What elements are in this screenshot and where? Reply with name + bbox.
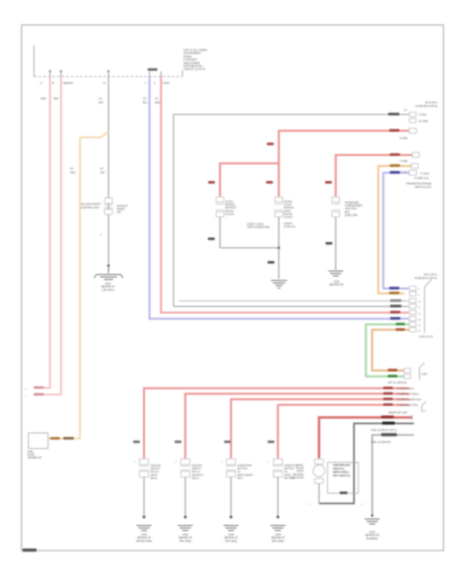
svg-text:KEY): KEY)	[238, 478, 244, 480]
connector stack pin labels	[418, 289, 421, 332]
gray right label	[381, 433, 397, 436]
gray loop top wire	[174, 115, 410, 307]
red thick pin tick	[411, 415, 413, 420]
svg-text:FUSE BOX (I/P-E): FUSE BOX (I/P-E)	[415, 104, 437, 108]
junction dot gray wire	[107, 264, 110, 267]
M1 ground wire label	[268, 261, 275, 264]
cascade bracket	[422, 402, 426, 413]
wire green loop	[366, 324, 409, 376]
svg-text:DRV SIDE): DRV SIDE)	[272, 540, 284, 543]
svg-text:KEY: KEY	[117, 212, 122, 214]
svg-text:DIGITAL: DIGITAL	[225, 210, 234, 213]
svg-text:START: START	[163, 82, 171, 85]
svg-text:KEY ILL: KEY ILL	[192, 472, 201, 474]
cascade 1 labels	[383, 387, 393, 390]
svg-text:12 (WITH ESCL): 12 (WITH ESCL)	[397, 389, 414, 391]
lower pair bracket	[420, 363, 425, 380]
svg-text:ESCL): ESCL)	[151, 478, 158, 480]
cascade 4 labels	[383, 403, 393, 406]
bus pin number labels	[40, 82, 170, 85]
svg-text:JOINT CONNECTOR): JOINT CONNECTOR)	[247, 227, 270, 229]
wire red cascade 2	[185, 394, 409, 459]
motor M5 top connector	[315, 459, 324, 464]
wire red cascade 1	[144, 388, 409, 459]
svg-text:FUSE BOX (I/P-G): FUSE BOX (I/P-G)	[415, 276, 438, 280]
fuse F4 pin	[149, 72, 151, 77]
branch 3 text	[238, 465, 254, 480]
svg-text:C204-2 (C,D): C204-2 (C,D)	[419, 337, 433, 339]
fuse box dashed bus	[34, 76, 183, 78]
wire black	[319, 423, 414, 503]
component M1 red wire	[279, 131, 409, 197]
svg-text:CIRCUIT (2 OF 6): CIRCUIT (2 OF 6)	[184, 67, 206, 71]
svg-text:I/P-G I/P-H: I/P-G I/P-H	[424, 273, 437, 277]
svg-text:2: 2	[221, 462, 223, 464]
branch 1 ground wire	[143, 477, 145, 516]
svg-text:GRY: GRY	[100, 171, 106, 174]
motor M5 circle	[313, 465, 325, 477]
wire red thick	[319, 417, 412, 458]
pin P4	[412, 164, 419, 169]
wire red cascade 4	[278, 405, 409, 459]
svg-text:IGNITION: IGNITION	[192, 466, 203, 468]
ground G6	[365, 519, 380, 524]
svg-text:RELEASE: RELEASE	[293, 473, 304, 476]
branch 1 connector	[139, 459, 149, 477]
wire blue 2 loop	[383, 173, 409, 289]
svg-text:ILL: ILL	[284, 472, 288, 474]
component M1 text	[284, 201, 296, 229]
svg-text:RED: RED	[54, 98, 59, 101]
svg-text:FUEL LID RELAY (I/P-G): FUEL LID RELAY (I/P-G)	[371, 429, 397, 432]
cascade 2 labels	[383, 392, 393, 395]
branch 2 ground wire	[184, 477, 186, 516]
lower pair pins	[404, 368, 411, 378]
svg-text:CLOCK): CLOCK)	[225, 214, 234, 216]
connector C9 right text	[117, 206, 128, 214]
svg-text:13 (WITHOUT ESCL): 13 (WITHOUT ESCL)	[397, 394, 419, 396]
page number label	[23, 549, 37, 552]
svg-text:RED: RED	[155, 101, 160, 104]
connector stack bracket	[425, 280, 432, 334]
svg-text:(BEHIND I/P): (BEHIND I/P)	[329, 284, 343, 287]
svg-text:MODULE: MODULE	[225, 205, 235, 207]
svg-text:SMART: SMART	[117, 208, 126, 211]
svg-text:COMPARTMENT: COMPARTMENT	[345, 205, 363, 208]
svg-text:6 C2(A): 6 C2(A)	[419, 114, 427, 117]
pink wires pin numbers	[25, 389, 27, 398]
svg-text:20: 20	[418, 331, 421, 333]
svg-text:CONTROL UNIT: CONTROL UNIT	[81, 206, 100, 209]
M2 red wire labels	[390, 153, 401, 156]
wire red 1	[161, 77, 409, 313]
svg-text:2: 2	[25, 396, 27, 398]
svg-text:(WITHOUT: (WITHOUT	[225, 208, 237, 210]
cascade 3 labels	[383, 398, 393, 401]
fuse box riser to label	[182, 71, 184, 77]
pin P1 top gray	[410, 112, 417, 122]
svg-text:GRY: GRY	[99, 101, 105, 104]
svg-text:BOX: BOX	[345, 212, 350, 214]
branch 1 dot	[143, 516, 146, 519]
svg-text:FUEL: FUEL	[298, 465, 305, 467]
branch 4 connector	[273, 459, 283, 477]
ground G1	[94, 266, 123, 280]
wire orange 2 loop	[378, 166, 411, 293]
svg-text:(WITH ESCL): (WITH ESCL)	[333, 470, 349, 474]
connector C9 in gray wire	[104, 198, 113, 215]
svg-text:KEY ILL: KEY ILL	[151, 472, 160, 474]
branch 1 text	[151, 466, 162, 480]
svg-text:2: 2	[268, 462, 270, 464]
svg-text:CLOCK): CLOCK)	[284, 217, 293, 219]
svg-text:7 C2(B): 7 C2(B)	[400, 161, 408, 163]
svg-text:CTR TRAY): CTR TRAY)	[102, 289, 115, 292]
svg-text:16 C2(B): 16 C2(B)	[419, 121, 428, 123]
wire gray right	[372, 435, 414, 515]
fuse F1 pin	[49, 71, 51, 77]
branch 3 connector	[226, 459, 236, 477]
branch 1 ground label	[136, 534, 152, 543]
branch 3 ground	[224, 526, 239, 531]
svg-text:START/STOP: START/STOP	[238, 465, 253, 468]
wire pink 2 end label	[34, 393, 45, 396]
svg-text:IGNITION KEY: IGNITION KEY	[333, 463, 351, 467]
svg-text:DRV SIDE): DRV SIDE)	[225, 540, 237, 543]
svg-text:2: 2	[175, 462, 177, 464]
svg-text:9 C2(B): 9 C2(B)	[400, 138, 408, 140]
svg-text:6: 6	[418, 295, 420, 297]
branch 3 ground wire	[230, 477, 232, 516]
svg-text:FUEL LID SWITCH: FUEL LID SWITCH	[371, 442, 391, 444]
branch 2 text	[192, 466, 204, 480]
svg-text:BLU: BLU	[143, 101, 148, 104]
junction dot J1	[278, 247, 281, 250]
svg-text:DIGITAL: DIGITAL	[284, 201, 293, 204]
branch 4 ground wire	[277, 477, 279, 516]
component M1 connector	[274, 197, 283, 217]
svg-text:FILLER: FILLER	[296, 468, 304, 470]
svg-text:PASSENGER: PASSENGER	[345, 202, 359, 205]
gray wire label upper	[100, 168, 106, 175]
svg-text:18: 18	[52, 83, 55, 85]
blue 2 destination text	[406, 182, 432, 189]
ground G2	[271, 281, 287, 289]
fuse F2 pin	[60, 71, 62, 77]
svg-text:CLOCK: CLOCK	[284, 205, 292, 207]
fuse F3 pin	[107, 71, 109, 77]
svg-text:4: 4	[145, 83, 147, 85]
fuse box text block	[184, 48, 208, 71]
motor M5 bottom connector	[315, 479, 324, 484]
component M0 text	[225, 202, 237, 216]
svg-text:8 C2(B) (C,D): 8 C2(B) (C,D)	[415, 178, 429, 180]
svg-text:DRIVER SIDE): DRIVER SIDE)	[136, 540, 152, 543]
pin P2	[409, 128, 417, 133]
branch 4 ground label	[271, 534, 285, 543]
svg-text:(SJB) (LHD): (SJB) (LHD)	[345, 215, 358, 217]
wire blue 1	[150, 77, 410, 319]
dark orange loop labels	[396, 328, 406, 331]
M2 ground wire	[335, 217, 337, 267]
wire color label RED (pin17)	[41, 98, 160, 105]
svg-text:0.5: 0.5	[100, 168, 104, 171]
svg-text:BUTTON: BUTTON	[284, 469, 294, 471]
svg-text:ACTUATOR: ACTUATOR	[291, 476, 304, 479]
svg-text:(WITH SMART: (WITH SMART	[238, 474, 254, 477]
svg-text:C205: C205	[422, 374, 428, 376]
component M0 note	[247, 223, 270, 229]
splice node S1	[80, 132, 109, 138]
svg-text:SWITCH: SWITCH	[192, 469, 201, 471]
component box fuel door	[29, 433, 49, 449]
wire dark orange loop	[372, 330, 409, 371]
relay box K1	[328, 462, 359, 493]
ground G1 label	[101, 283, 115, 292]
svg-text:0.5: 0.5	[155, 98, 159, 101]
M1 red wire labels	[389, 129, 400, 132]
motor M5 lead	[318, 483, 320, 503]
component M2 red wire	[336, 155, 413, 197]
component M2 connector	[331, 197, 340, 217]
M0 ground wire label	[208, 238, 215, 241]
svg-text:MEMORY: MEMORY	[63, 83, 74, 85]
svg-text:WITHOUT: WITHOUT	[117, 206, 128, 208]
svg-text:3: 3	[418, 289, 420, 291]
gray loop bottom label	[390, 305, 402, 308]
svg-text:HOLE ILL: HOLE ILL	[333, 467, 345, 471]
svg-text:1: 1	[309, 504, 311, 506]
wire pink 1 end label	[34, 386, 45, 389]
wire pink 2	[35, 77, 62, 395]
wire bus riser	[33, 45, 35, 77]
svg-text:DIGITAL: DIGITAL	[284, 213, 293, 216]
orange 2 labels	[390, 164, 401, 167]
svg-text:SWITCH (A/T): SWITCH (A/T)	[415, 185, 432, 189]
svg-text:RED: RED	[41, 98, 46, 101]
svg-text:1: 1	[25, 389, 27, 391]
svg-text:MODULE: MODULE	[284, 208, 294, 210]
M2 ground wire label	[326, 242, 333, 245]
orange wire label	[70, 168, 76, 175]
svg-text:17 (WITH BUTTON): 17 (WITH BUTTON)	[397, 405, 418, 407]
svg-text:16: 16	[418, 320, 421, 322]
svg-text:JUNCTION: JUNCTION	[345, 209, 357, 211]
svg-text:17 C2(A): 17 C2(A)	[420, 173, 429, 176]
branch 2 dot	[184, 516, 187, 519]
svg-text:BUMPER): BUMPER)	[367, 537, 378, 540]
black wire label	[382, 422, 395, 425]
svg-text:0.5: 0.5	[143, 98, 147, 101]
svg-text:(C): (C)	[423, 411, 426, 413]
svg-text:DOOR: DOOR	[28, 455, 35, 457]
component M2 text	[345, 202, 363, 217]
orange wire end labels	[50, 437, 60, 440]
fuse F4 label	[148, 68, 158, 71]
branch 1 ground	[137, 526, 152, 531]
pin P1 labels	[404, 110, 428, 123]
svg-text:10: 10	[418, 302, 421, 304]
wire red cascade 3	[231, 399, 409, 459]
svg-text:8: 8	[101, 235, 103, 237]
branch 3 dot	[230, 516, 233, 519]
branch 3 ground label	[224, 534, 238, 543]
I/P junction header text	[415, 101, 437, 108]
svg-text:C/CAN JC): C/CAN JC)	[284, 226, 296, 229]
pin P5	[409, 170, 417, 175]
svg-text:ESCL): ESCL)	[192, 478, 199, 480]
pin P5 labels	[415, 173, 430, 180]
component M0 red wire tap	[220, 163, 279, 196]
svg-text:BUTTON: BUTTON	[238, 469, 248, 471]
branch 4 text	[284, 465, 299, 480]
M0 ground wire	[220, 217, 279, 248]
relay box bottom label	[340, 492, 348, 495]
fuse F5 pin	[160, 72, 162, 77]
svg-text:2: 2	[362, 504, 364, 506]
svg-text:(I-BODY C/CAN: (I-BODY C/CAN	[247, 223, 264, 226]
svg-text:DOOR: DOOR	[297, 471, 304, 473]
connector C9 left text	[81, 203, 102, 209]
wire gray center	[108, 77, 110, 266]
wire orange 1	[49, 137, 81, 438]
blue 1 label	[390, 317, 401, 320]
svg-text:(I-BODY: (I-BODY	[284, 224, 293, 226]
svg-text:ILL: ILL	[238, 472, 242, 474]
green loop labels	[396, 323, 406, 326]
svg-text:11: 11	[418, 307, 421, 309]
blue 2 labels	[390, 171, 401, 174]
branch 2 connector	[180, 459, 190, 477]
connector stack header text	[415, 273, 438, 280]
svg-text:CLOCK: CLOCK	[225, 202, 233, 204]
gray loop bottom wire	[174, 305, 410, 307]
svg-text:14: 14	[404, 110, 407, 112]
M1 ground wire	[278, 217, 280, 279]
svg-text:18: 18	[418, 325, 421, 327]
wire pink 1	[35, 77, 51, 388]
ground G3	[328, 267, 343, 276]
ground G3 label	[329, 281, 343, 287]
svg-text:(WITH: (WITH	[151, 475, 158, 477]
branch 2 ground	[178, 526, 193, 531]
red 1 label	[390, 311, 401, 314]
svg-text:(WITHOUT: (WITHOUT	[192, 475, 204, 477]
red thick label	[381, 416, 394, 419]
svg-text:ORG: ORG	[70, 171, 76, 174]
fuel door box text	[28, 452, 42, 460]
ground G6 label	[365, 531, 379, 540]
svg-text:FUEL: FUEL	[28, 452, 35, 454]
svg-text:KEY ILL MODULE: KEY ILL MODULE	[388, 383, 407, 385]
svg-text:OPENER LID: OPENER LID	[28, 458, 42, 460]
svg-text:0.5: 0.5	[99, 98, 103, 101]
svg-text:14: 14	[103, 83, 106, 85]
gray loop top label	[388, 113, 400, 116]
relay box text rows	[333, 463, 351, 478]
svg-text:17: 17	[40, 83, 43, 85]
svg-text:(WITH: (WITH	[284, 211, 291, 213]
pin P3	[413, 153, 420, 158]
svg-text:DRV SIDE): DRV SIDE)	[179, 540, 191, 543]
svg-text:15 (WITH SMART KEY): 15 (WITH SMART KEY)	[397, 399, 422, 402]
branch 4 ground	[270, 526, 285, 531]
motor M5 left text	[291, 465, 304, 479]
svg-text:14: 14	[418, 313, 421, 315]
branch 4 dot	[277, 516, 280, 519]
component M0 connector	[215, 197, 224, 217]
svg-text:6: 6	[154, 83, 156, 85]
junction dot gray right	[371, 514, 374, 517]
svg-text:IGNITION: IGNITION	[151, 466, 162, 468]
branch 2 ground label	[179, 534, 193, 543]
connector stack pins	[410, 286, 417, 332]
svg-text:I/P-E I/P-F: I/P-E I/P-F	[425, 101, 438, 105]
svg-text:KEY HOLE ILL: KEY HOLE ILL	[333, 474, 351, 478]
svg-text:SMART KEY UNIT: SMART KEY UNIT	[388, 412, 408, 415]
svg-text:0.5: 0.5	[70, 168, 74, 171]
M0 red wire label	[208, 181, 215, 184]
svg-text:2: 2	[134, 462, 136, 464]
svg-text:SWITCH: SWITCH	[151, 469, 160, 471]
gray wire 2 label	[390, 299, 402, 302]
gray wire 2 bottom	[179, 300, 409, 302]
